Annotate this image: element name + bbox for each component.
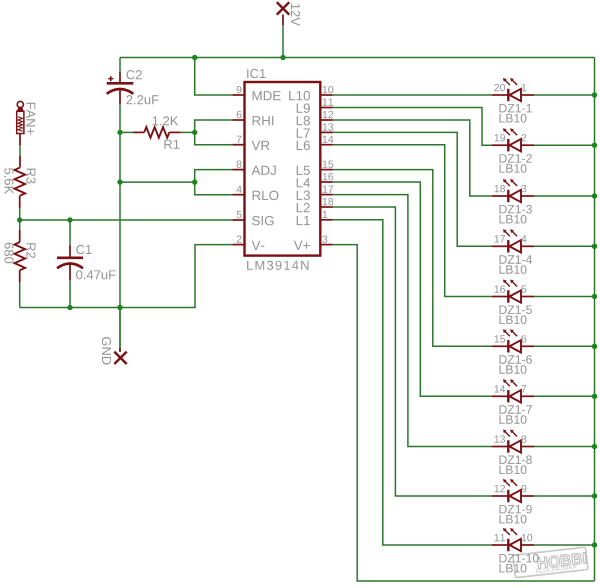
wire LED8 cathode to bus: [534, 446, 595, 448]
LED D4 DZ1-4 LB10: [492, 229, 534, 273]
pin 10 L10: [289, 86, 333, 101]
resistor R3 5.6K: [4, 155, 35, 208]
wire LED5 cathode to bus: [534, 296, 595, 298]
wire C1 top lead: [69, 220, 71, 246]
LED D9 DZ1-9 LB10: [492, 479, 534, 524]
junction bus / LED1: [592, 92, 597, 97]
IC1 name label: [247, 69, 265, 78]
wire R1 left segment: [120, 131, 133, 133]
junction bottom rail / C1: [67, 305, 72, 310]
pin 9 MDE: [232, 86, 280, 100]
wire L3 to LED8: [333, 195, 493, 447]
connector FAN+: [17, 101, 36, 145]
wire L7 to LED4: [333, 132, 493, 246]
wire LED6 cathode to bus: [534, 345, 595, 347]
wire LED3 cathode to bus: [534, 195, 595, 197]
wire R3 to SIG node: [19, 208, 21, 220]
junction bus / LED4: [592, 244, 597, 249]
wire +12V bottom rail to V+: [333, 245, 595, 581]
pin 15 L5: [297, 161, 334, 175]
supply +12V symbol: [277, 2, 300, 26]
pin 3 V+: [294, 236, 333, 250]
junction top rail / 12V: [280, 55, 285, 60]
junction bus / LED5: [592, 294, 597, 299]
junction bus / LED2: [592, 143, 597, 148]
ground GND symbol: [102, 337, 127, 365]
wire GND symbol drop: [119, 308, 121, 349]
LED D1 DZ1-1 LB10: [492, 78, 534, 123]
junction bottom rail / GND vertical: [117, 305, 122, 310]
wire R1 right segment: [181, 131, 195, 133]
pin 13 L7: [297, 123, 334, 137]
wire V- route to bottom rail: [20, 245, 233, 308]
wire LED9 cathode to bus: [534, 495, 595, 497]
wire SIG row: [20, 219, 233, 221]
junction ADJ wire / bracket: [192, 179, 197, 184]
pin 14 L6: [297, 136, 334, 150]
wire R2 bottom riser: [19, 282, 21, 307]
wire +12V top rail: [120, 57, 595, 59]
pin 12 L8: [297, 111, 334, 126]
LED D3 DZ1-3 LB10: [492, 179, 534, 224]
pin 1 L1: [297, 211, 333, 225]
wire C1 bottom lead: [69, 280, 71, 308]
wire LED2 cathode to bus: [534, 144, 595, 146]
pin 7 VR: [232, 136, 269, 150]
wire RHI/VR bracket: [195, 120, 233, 145]
junction R1 right / bracket: [192, 130, 197, 135]
junction SIG / R3-R2: [17, 217, 22, 222]
wire +12V right bus: [594, 58, 596, 582]
wire L8 to LED3: [333, 120, 493, 196]
wire L6 to LED5: [333, 145, 493, 297]
junction bus / LED8: [592, 444, 597, 449]
wire ADJ/RLO bracket: [195, 170, 233, 195]
pin 16 L4: [297, 173, 334, 187]
wire L5 to LED6: [333, 170, 493, 347]
junction top rail / pin9 branch: [192, 55, 197, 60]
pin 4 RLO: [232, 186, 278, 200]
wire 12V supply drop: [282, 25, 284, 58]
wire SIG node to R2: [19, 220, 21, 230]
wire LED7 cathode to bus: [534, 395, 595, 397]
junction SIG / C1 top: [67, 217, 72, 222]
IC1 value label LM3914N: [247, 261, 308, 270]
LED D6 DZ1-6 LB10: [492, 329, 534, 374]
junction bus / LED10: [592, 542, 597, 547]
pin 11 L9: [297, 99, 334, 113]
LED D10 DZ1-10 LB10: [492, 528, 539, 573]
wire L1 to LED10: [333, 220, 493, 545]
pin 8 ADJ: [232, 161, 275, 176]
wire GND main vertical (C2 top segment): [119, 58, 121, 73]
capacitor C1 0.47uF: [57, 245, 116, 280]
op-amp/IC U1 IC1 LM3914N body: [245, 82, 321, 256]
wire LED10 cathode to bus: [534, 544, 595, 546]
wire ADJ/RLO to GND: [120, 181, 195, 183]
junction bus / LED3: [592, 193, 597, 198]
watermark HOBBI ELEKTRONIKA: [513, 547, 588, 578]
pin 5 SIG: [232, 211, 273, 225]
pin 17 L3: [297, 186, 334, 200]
LED D7 DZ1-7 LB10: [492, 379, 534, 424]
wire L4 to LED7: [333, 182, 493, 396]
wire FAN+ to R3: [19, 146, 21, 156]
capacitor C2 2.2uF: [107, 70, 159, 104]
wire GND main vertical (below C2): [119, 104, 121, 351]
wire L9 to LED2: [333, 108, 493, 146]
pin 2 V-: [232, 236, 264, 250]
wire L2 to LED9: [333, 207, 493, 496]
junction ADJ wire / GND vertical: [117, 179, 122, 184]
LED D2 DZ1-2 LB10: [492, 128, 534, 173]
resistor R2 680: [4, 230, 35, 283]
junction bus / LED6: [592, 344, 597, 349]
wire pin9 MDE branch: [195, 58, 233, 96]
wire LED4 cathode to bus: [534, 245, 595, 247]
junction bus / LED7: [592, 394, 597, 399]
LED D8 DZ1-8 LB10: [492, 430, 534, 475]
wire LED1 cathode to bus: [534, 94, 595, 96]
pin 6 RHI: [232, 111, 273, 125]
wire L10 to LED1: [333, 94, 493, 96]
pin 18 L2: [297, 198, 334, 212]
resistor R1 1.2K: [133, 116, 181, 149]
junction bus / LED9: [592, 493, 597, 498]
junction R1 left / GND vertical: [117, 130, 122, 135]
LED D5 DZ1-5 LB10: [492, 280, 534, 325]
